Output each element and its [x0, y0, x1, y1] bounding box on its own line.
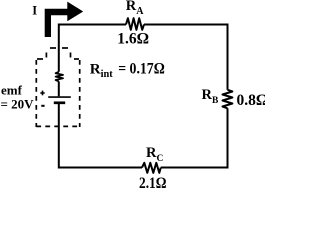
current arrow I [45, 2, 83, 37]
svg-text:1.6Ω: 1.6Ω [117, 30, 149, 47]
svg-text:RC: RC [146, 145, 163, 164]
resistor R_B [223, 90, 233, 109]
dashed box bottom edge [36, 125, 79, 127]
resistor R_int [56, 72, 63, 82]
resistor R_C [142, 163, 161, 173]
svg-text:I: I [32, 4, 37, 18]
dashed box around source: top edge with notch [37, 48, 79, 59]
svg-text:Rint = 0.17Ω: Rint = 0.17Ω [90, 61, 165, 80]
svg-text:= 20V: = 20V [1, 96, 35, 111]
battery plus sign [40, 91, 44, 96]
resistor R_A [126, 18, 144, 30]
svg-text:RB: RB [202, 87, 219, 106]
svg-text:emf: emf [1, 83, 23, 98]
svg-text:2.1Ω: 2.1Ω [139, 175, 167, 190]
wire top-right corner [144, 25, 228, 90]
battery minus sign [41, 105, 44, 107]
svg-text:0.8Ω: 0.8Ω [237, 92, 266, 109]
wire bottom-right corner [161, 108, 228, 167]
svg-text:RA: RA [126, 0, 144, 17]
battery negative plate [54, 101, 65, 104]
wire R_int to battery [58, 81, 60, 96]
wire top-left corner down to R_int [59, 25, 126, 72]
battery positive plate [48, 96, 71, 98]
dashed box right edge [79, 60, 81, 127]
dashed box left edge [35, 60, 37, 127]
wire battery to bottom-left corner [59, 104, 142, 168]
